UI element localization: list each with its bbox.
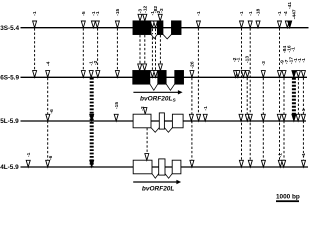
connector 6S->4L @x303.4 <box>302 78 304 161</box>
connector 5L/4L @x147.1 <box>146 128 148 154</box>
4L insertion site x28.2 <box>26 160 30 167</box>
svg-text:-12: -12 <box>143 5 149 12</box>
map line 4L-5.9 <box>21 166 309 168</box>
5L insertion site x91.7 (on ladder) <box>90 114 94 121</box>
3S insertion site x34.6 <box>33 21 37 28</box>
svg-text:-6: -6 <box>49 109 55 114</box>
svg-text:-1: -1 <box>239 11 245 16</box>
svg-text:5L-5.9: 5L-5.9 <box>0 118 19 125</box>
thick connector 6S/5L @x293.9 <box>292 78 296 115</box>
svg-text:-1: -1 <box>278 153 284 158</box>
svg-text:-4: -4 <box>45 61 51 66</box>
svg-text:-1: -1 <box>26 152 32 157</box>
6S exon 3 (black box) <box>175 71 184 85</box>
4L exon 1 (open box) <box>133 160 152 174</box>
4L insertion site x280.3 <box>278 160 282 167</box>
connector 6S/5L/4L @x47.7 <box>47 78 49 161</box>
3S insertion site x241.5 <box>240 21 244 28</box>
svg-text:-1: -1 <box>301 58 307 63</box>
6S insertion site x155.6 <box>154 71 158 78</box>
5L insertion site x298.1 <box>296 114 300 121</box>
4L insertion site x283.6 <box>282 160 286 167</box>
svg-text:4L-5.9: 4L-5.9 <box>0 164 19 171</box>
6S insertion site x152.4 <box>150 71 154 78</box>
3S insertion site x258 <box>256 21 260 28</box>
connector 3S/6S @x117.4 <box>116 28 118 71</box>
4L insertion site x91.7 (on ladder) <box>90 160 94 167</box>
6S exon 1 (black box) <box>133 71 150 85</box>
6S insertion site x191.9 <box>190 71 194 78</box>
6S insertion site x247.4 <box>245 71 249 78</box>
5L insertion site x247.3 <box>245 114 249 121</box>
3S insertion site x289.7 (filled) <box>288 21 292 28</box>
connector 6S->4L @x263.3 <box>262 78 264 161</box>
5L exon 1 (open box) <box>133 114 151 128</box>
6S insertion site x235.6 <box>234 71 238 78</box>
svg-text:-2: -2 <box>93 60 99 65</box>
svg-text:-1: -1 <box>95 11 101 16</box>
scale bar 1000 bp <box>276 200 299 202</box>
3S insertion site x250.2 <box>248 21 252 28</box>
6S intron 2 notch <box>166 84 175 90</box>
3S insertion site x160.2 (on exon) <box>158 14 162 21</box>
connector 3S/6S @x140 (exon insertions) <box>139 35 141 64</box>
5L exon 3 (open box) <box>172 114 183 128</box>
svg-text:-26: -26 <box>190 61 196 68</box>
3S exon 2 (black box) <box>157 21 163 35</box>
svg-text:-1: -1 <box>196 11 202 16</box>
4L insertion site x241.4 <box>239 160 243 167</box>
4L insertion site x263.4 <box>261 160 265 167</box>
6S insertion site x243.4 <box>241 71 245 78</box>
6S insertion site x117.4 <box>115 71 119 78</box>
svg-text:-3: -3 <box>159 8 165 13</box>
6S insertion site x293.9 (filled) <box>292 71 296 78</box>
3S insertion site x117.4 <box>115 21 119 28</box>
3S insertion site x93.4 <box>91 21 95 28</box>
connector 3S/6S @x97.6 <box>97 28 99 71</box>
svg-text:-3: -3 <box>140 106 146 111</box>
3S insertion site x279.5 <box>278 21 282 28</box>
3S insertion site x287.3 <box>285 21 289 28</box>
connector 3S->4L @x250.2 <box>249 28 251 161</box>
map line 5L-5.9 <box>21 120 307 122</box>
4L insertion site x250.3 <box>248 160 252 167</box>
3S insertion site x83.3 <box>81 21 85 28</box>
5L insertion site x293.9 (filled) <box>292 114 296 121</box>
svg-text:bvORF20LS: bvORF20LS <box>140 95 177 103</box>
4L exon 2 (open box) <box>159 159 165 175</box>
6S insertion site x279.5 <box>278 71 282 78</box>
connector 6S->4L @x284 <box>283 78 285 161</box>
svg-text:-1: -1 <box>203 106 209 111</box>
6S insertion site x97.8 <box>96 71 100 78</box>
3S insertion site x155.5 <box>154 21 158 28</box>
4L insertion site x303.5 <box>302 160 306 167</box>
svg-text:-15: -15 <box>114 102 120 109</box>
5L insertion site x205.2 <box>203 114 207 121</box>
svg-text:-1: -1 <box>301 153 307 158</box>
4L insertion site x47.7 <box>46 160 50 167</box>
6S insertion site x91.2 <box>89 71 93 78</box>
5L intron 2 notch <box>164 128 172 133</box>
5L insertion site x116.2 <box>114 114 118 121</box>
5L insertion site x263.3 <box>261 114 265 121</box>
3S insertion site x140 (on exon) <box>138 14 142 21</box>
svg-text:-447: -447 <box>292 9 298 19</box>
svg-text:-1: -1 <box>32 11 38 16</box>
3S insertion site x144.8 (on exon) <box>143 14 147 21</box>
6S insertion site x303.4 <box>301 71 305 78</box>
svg-text:-41: -41 <box>287 2 293 9</box>
svg-text:1000 bp: 1000 bp <box>276 193 300 200</box>
6S intron 1 notch <box>150 84 158 90</box>
5L insertion site x284 <box>282 114 286 121</box>
4L insertion site x191.9 <box>190 160 194 167</box>
bvORF20L transcript arrow <box>133 181 177 183</box>
connector 3S/6S @x152.4 <box>151 29 153 71</box>
connector 3S/6S @x155.5 <box>155 29 157 71</box>
connector 6S/5L @x298.4 <box>297 78 299 115</box>
svg-text:bvORF20L: bvORF20L <box>142 186 175 193</box>
connector 3S/6S @x83.3 <box>82 28 84 71</box>
svg-text:-5: -5 <box>81 11 87 16</box>
svg-text:-1: -1 <box>248 11 254 16</box>
svg-text:-13: -13 <box>244 56 250 63</box>
svg-text:-18: -18 <box>256 8 262 15</box>
3S insertion site x198.4 <box>196 21 200 28</box>
6S insertion site x47.7 <box>46 71 50 78</box>
5L insertion site x47.8 <box>46 114 50 121</box>
3S insertion site x97.3 <box>95 21 99 28</box>
5L insertion site x241 <box>239 114 243 121</box>
svg-text:-15: -15 <box>115 8 121 15</box>
connector 3S->4L @x279.5 <box>279 28 281 161</box>
4L intron 1 notch <box>152 174 159 179</box>
6S insertion site x284 <box>282 71 286 78</box>
6S insertion site x144.6 (on exon) <box>143 64 147 71</box>
map line 3S-5.4 <box>21 27 309 29</box>
svg-text:-1: -1 <box>301 108 307 113</box>
svg-text:-3: -3 <box>261 61 267 66</box>
6S insertion site x160.4 (on exon) <box>158 64 162 71</box>
4L exon 3 (open box) <box>172 160 181 174</box>
map line 6S-5.9 <box>21 76 308 78</box>
svg-text:-1: -1 <box>291 47 297 52</box>
5L insertion site x279.3 <box>277 114 281 121</box>
thick ladder connector 6S->4L @x91.7 <box>90 78 94 167</box>
svg-text:-1: -1 <box>277 11 283 16</box>
connector 3S->4L @x241.5 <box>241 28 243 161</box>
6S insertion site x263.3 <box>261 71 265 78</box>
5L exon 2 (open box) <box>159 113 164 129</box>
3S insertion site x152.4 <box>150 21 154 28</box>
connector 6S/5L/4L @x191.9 <box>191 78 193 161</box>
svg-text:-4: -4 <box>283 11 289 16</box>
6S insertion site x83.3 <box>81 71 85 78</box>
3S exon 3 (black box) <box>172 21 182 35</box>
connector 6S/5L @x247.2 <box>246 78 248 115</box>
5L insertion site x303.4 <box>301 114 305 121</box>
6S insertion site x237.9 <box>236 71 240 78</box>
5L insertion site x250.3 <box>248 114 252 121</box>
5L insertion site x145.2 (on exon) <box>144 108 147 115</box>
4L intron 2 notch <box>165 174 172 179</box>
5L insertion site x198.6 <box>197 114 201 121</box>
3S intron 2 notch <box>163 34 172 39</box>
6S insertion site x139.7 (on exon) <box>138 64 142 71</box>
connector 3S/6S @x34.6 <box>34 28 36 71</box>
bvORF20L_S transcript arrow <box>133 91 179 93</box>
6S exon 2 (black box) <box>158 71 166 85</box>
6S insertion site x298.4 <box>296 71 300 78</box>
3S intron 1 notch <box>151 34 157 38</box>
svg-text:-6: -6 <box>48 155 54 160</box>
5L insertion site x191.4 <box>189 114 193 121</box>
svg-text:3S-5.4: 3S-5.4 <box>0 25 19 32</box>
connector 3S/5L @x198.4 <box>197 28 199 115</box>
connector 3S/6S @x160.4 <box>159 35 161 64</box>
4L insertion site x146.8 (on exon) <box>145 154 149 161</box>
connector 3S/6S @x144.8 <box>144 35 146 64</box>
svg-text:6S-5.9: 6S-5.9 <box>0 74 19 81</box>
6S insertion site x34.6 <box>33 71 37 78</box>
3S exon 1 (black box) <box>133 21 151 35</box>
svg-text:-1: -1 <box>235 57 241 62</box>
5L intron 1 notch <box>151 128 159 133</box>
